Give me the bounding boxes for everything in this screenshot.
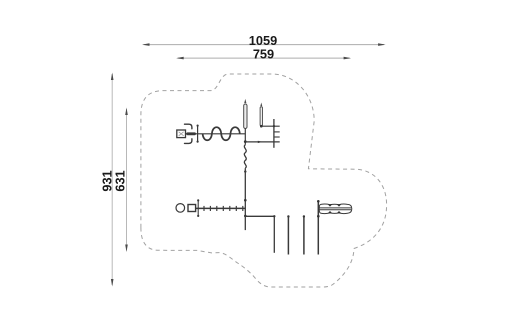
wire: branch corner down xyxy=(273,216,275,253)
svg-text:759: 759 xyxy=(253,46,274,61)
main post P1 capsule (with arrow tip) xyxy=(244,99,247,129)
svg-text:631: 631 xyxy=(113,170,128,191)
node at branch corner xyxy=(273,215,275,217)
ladder rung a xyxy=(274,131,280,133)
wire: post P1 down to junction xyxy=(244,129,246,145)
flexible zigzag element on main post xyxy=(244,145,246,168)
node above ladder on main post xyxy=(244,199,247,202)
dimension line 1059 (top, outer) xyxy=(142,33,386,48)
post C (bridge support) xyxy=(317,200,320,255)
post A xyxy=(287,215,289,254)
spring rocker top handle hook xyxy=(185,124,192,129)
spring rocker seat tick xyxy=(197,125,199,143)
horizontal bar to ladder (with direction dart) xyxy=(245,141,279,143)
dimension line 931 (left, outer) xyxy=(100,73,115,287)
spring rocker bottom handle hook xyxy=(185,139,192,144)
junction node at P1 xyxy=(244,140,247,143)
safety zone dashed outline xyxy=(141,74,387,287)
post P2 capsule (with arrow tip) xyxy=(260,103,262,127)
dimension line 631 (left, inner) xyxy=(113,108,128,253)
ladder rung b xyxy=(274,136,280,138)
post B xyxy=(303,215,305,254)
node below zigzag xyxy=(244,170,246,172)
ladder rail vertical xyxy=(273,119,275,148)
wheel hub square xyxy=(188,205,196,212)
main horizontal beam (wave bar axis) xyxy=(186,133,246,135)
wire: main post lower run xyxy=(244,168,246,230)
node at P2 base xyxy=(260,125,263,128)
middle ladder beam xyxy=(196,207,246,209)
dimension line 759 (top, inner) xyxy=(176,46,351,61)
node below ladder on main post xyxy=(244,215,247,218)
spring rocker base square with X xyxy=(177,130,186,138)
spring rocker axle rod xyxy=(188,132,195,135)
wire: P2 base to ladder rail xyxy=(261,125,279,127)
node at rail top joint xyxy=(273,125,275,127)
wire: branch right from main post xyxy=(245,215,274,217)
steering wheel circle xyxy=(176,204,185,213)
bridge rope darts xyxy=(328,204,342,213)
seat tick at wheel xyxy=(197,199,199,217)
bridge capsule outline xyxy=(319,204,352,214)
wave climber beam xyxy=(203,127,240,140)
middle ladder rungs xyxy=(204,206,243,211)
bridge deck double line xyxy=(318,208,351,210)
